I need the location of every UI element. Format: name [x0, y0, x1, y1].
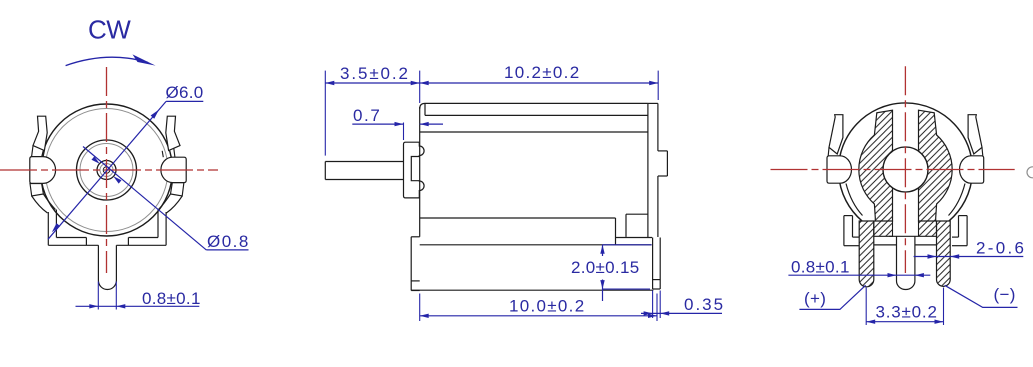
svg-text:0.35: 0.35	[684, 295, 725, 314]
svg-text:Ø0.8: Ø0.8	[207, 232, 250, 251]
svg-text:0.8±0.1: 0.8±0.1	[142, 289, 201, 308]
svg-text:0.7: 0.7	[353, 106, 381, 125]
svg-text:3.5±0.2: 3.5±0.2	[340, 64, 410, 83]
svg-text:10.2±0.2: 10.2±0.2	[504, 63, 580, 82]
svg-text:(−): (−)	[994, 285, 1016, 304]
svg-text:Ø6.0: Ø6.0	[166, 83, 204, 102]
svg-text:2.0±0.15: 2.0±0.15	[571, 258, 639, 277]
svg-text:2-0.6: 2-0.6	[976, 239, 1026, 258]
svg-text:10.0±0.2: 10.0±0.2	[509, 297, 585, 316]
svg-text:CW: CW	[88, 15, 131, 45]
svg-text:(+): (+)	[804, 289, 826, 308]
svg-text:0.8±0.1: 0.8±0.1	[791, 257, 850, 276]
svg-text:3.3±0.2: 3.3±0.2	[876, 303, 938, 322]
